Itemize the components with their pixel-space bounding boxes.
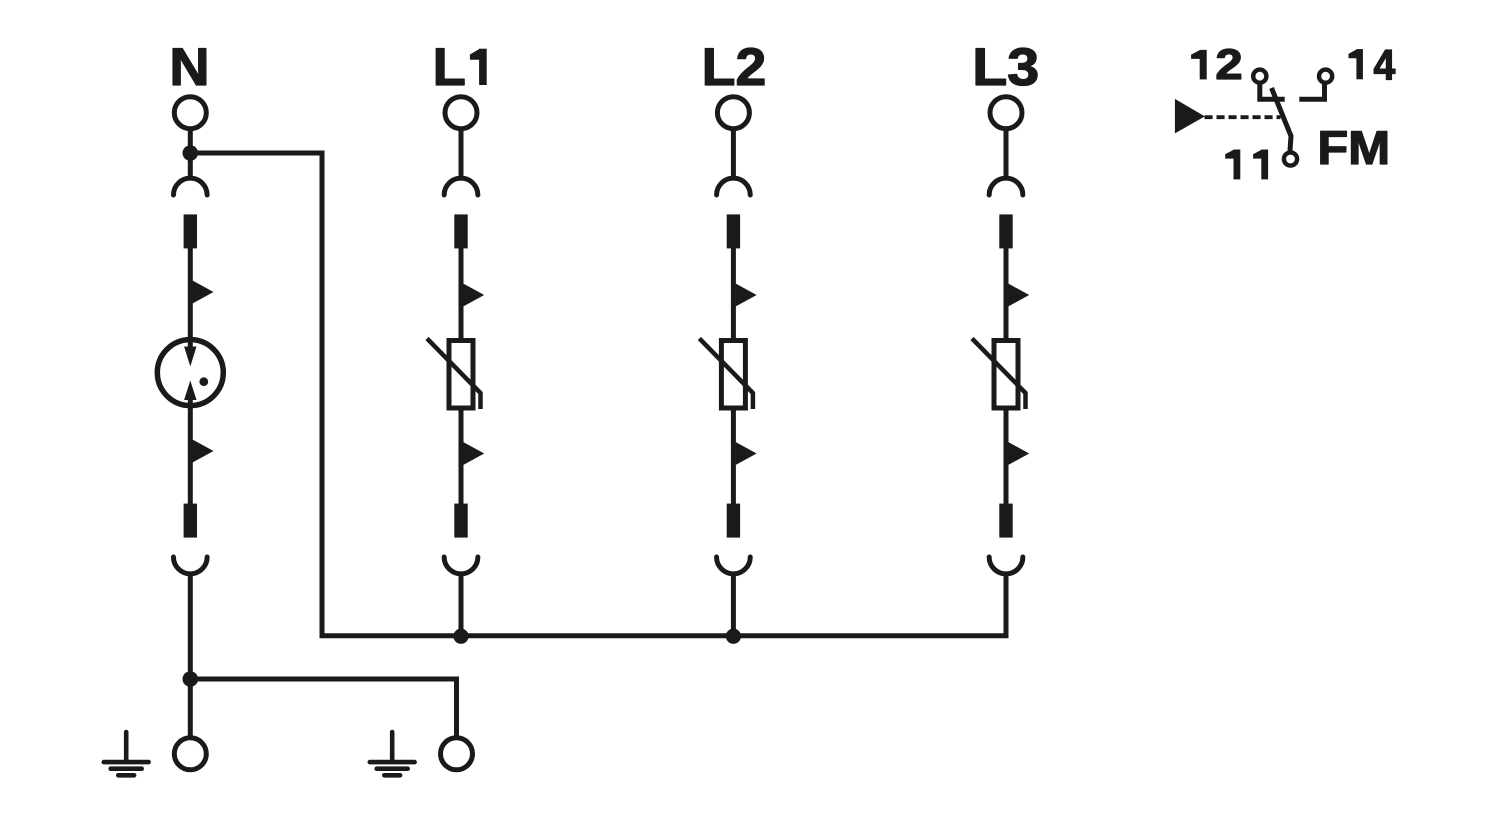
- wire L2 to common bus: [731, 576, 736, 637]
- gas-filled indicator dot: [199, 377, 208, 386]
- terminal L3 circle: [990, 97, 1022, 129]
- svg-text:2: 2: [1215, 41, 1242, 89]
- pin 12 contact lead: [1260, 83, 1285, 100]
- wire N below protective element: [188, 406, 193, 505]
- wire L1 terminal to plug contact: [459, 130, 464, 178]
- svg-text:L2: L2: [702, 38, 767, 97]
- pin 14 contact circle: [1319, 70, 1332, 83]
- wire L2 below protective element: [731, 406, 736, 505]
- terminal label L1: [433, 38, 487, 97]
- junction node on PE line: [183, 671, 199, 687]
- disconnect indicator flag upper L3: [1008, 284, 1029, 307]
- FM actuator arrow: [1175, 99, 1205, 133]
- spark gap top electrode arrow: [184, 347, 196, 367]
- fuse/disconnect element bar L3: [999, 214, 1012, 248]
- disconnect indicator flag lower L3: [1008, 442, 1029, 465]
- junction node on N line: [183, 145, 199, 161]
- disconnect indicator flag upper N: [193, 281, 214, 304]
- plug contact (module bottom) L1: [444, 557, 478, 574]
- varistor L2 body: [721, 341, 745, 409]
- fuse/disconnect element bar lower N: [184, 504, 197, 538]
- wire N terminal to plug contact: [188, 130, 193, 178]
- disconnect indicator flag lower L2: [736, 442, 757, 465]
- plug contact (module top) N: [173, 178, 207, 195]
- varistor L3 body: [994, 341, 1018, 409]
- wire L3 terminal to plug contact: [1004, 130, 1009, 178]
- pin 11 contact circle: [1284, 152, 1297, 165]
- wire PE branch to second PE terminal: [190, 679, 456, 738]
- FM changeover lever: [1272, 88, 1292, 151]
- svg-text:FM: FM: [1317, 121, 1390, 174]
- varistor L3 diagonal stroke: [972, 339, 1026, 410]
- pin 11 label: [1225, 150, 1268, 180]
- PE terminal circle 2: [441, 738, 473, 770]
- FM actuator dashed link: [1205, 115, 1281, 119]
- wire L3 fuse to varistor: [1004, 247, 1009, 344]
- varistor L1 body: [449, 341, 473, 409]
- plug contact (module top) L3: [989, 178, 1023, 195]
- ground symbol: [370, 732, 415, 775]
- gas discharge tube / spark gap N circle: [157, 340, 223, 406]
- fuse/disconnect element bar L1: [454, 214, 467, 248]
- pin 14 contact lead: [1299, 83, 1324, 100]
- spark gap bottom electrode shaft: [188, 399, 193, 406]
- plug contact (module bottom) L3: [989, 557, 1023, 574]
- ground symbol: [104, 732, 149, 775]
- plug contact (module top) L2: [717, 178, 751, 195]
- PE terminal circle 1: [174, 738, 206, 770]
- terminal N circle: [174, 97, 206, 129]
- pin 12 label: [1191, 41, 1243, 89]
- wire L3 below protective element: [1004, 406, 1009, 505]
- svg-text:L3: L3: [972, 38, 1039, 97]
- disconnect indicator flag upper L2: [736, 284, 757, 307]
- fuse/disconnect element bar lower L2: [727, 504, 740, 538]
- wire N branch to L-bus (right and down): [190, 153, 1006, 636]
- disconnect indicator flag lower N: [193, 440, 214, 463]
- svg-text:L: L: [433, 38, 466, 97]
- wire L1 fuse to varistor: [459, 247, 464, 344]
- spark gap bottom electrode arrow: [184, 381, 196, 401]
- terminal L1 circle: [445, 97, 477, 129]
- varistor L1 diagonal stroke: [427, 339, 481, 410]
- pin 14 label: [1349, 42, 1396, 90]
- svg-text:4: 4: [1374, 42, 1396, 90]
- disconnect indicator flag upper L1: [463, 284, 484, 307]
- plug contact (module bottom) N: [173, 557, 207, 574]
- disconnect indicator flag lower L1: [463, 442, 484, 465]
- wire L2 terminal to plug contact: [731, 130, 736, 178]
- junction node L1 on bus: [453, 629, 468, 644]
- wire L2 fuse to varistor: [731, 247, 736, 344]
- junction node L2 on bus: [726, 629, 741, 644]
- wire L1 to common bus: [459, 576, 464, 637]
- fuse/disconnect element bar L2: [727, 214, 740, 248]
- terminal L2 circle: [717, 97, 749, 129]
- varistor L2 diagonal stroke: [699, 339, 753, 410]
- plug contact (module top) L1: [444, 178, 478, 195]
- plug contact (module bottom) L2: [717, 557, 751, 574]
- fuse/disconnect element bar N: [184, 214, 197, 248]
- fuse/disconnect element bar lower L1: [454, 504, 467, 538]
- wire N module bottom to PE terminal: [188, 576, 193, 738]
- wire L1 below protective element: [459, 406, 464, 505]
- pin 12 contact circle: [1253, 70, 1266, 83]
- fuse/disconnect element bar lower L3: [999, 504, 1012, 538]
- wire N fuse to spark gap: [188, 247, 193, 349]
- svg-text:N: N: [169, 38, 209, 97]
